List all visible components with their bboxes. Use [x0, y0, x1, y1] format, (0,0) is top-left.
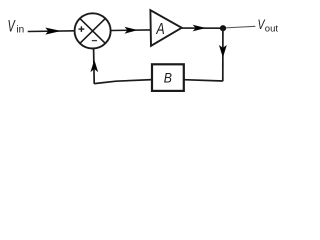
- wire Vin to summing junction: [28, 30, 75, 33]
- node Vin label: [8, 16, 25, 35]
- wire summing junction to amplifier: [112, 29, 151, 32]
- arrowhead pointing up into summing junction: [91, 61, 97, 71]
- node Vout label: [258, 16, 279, 34]
- svg-text:B: B: [164, 70, 172, 86]
- arrowhead on wire to amplifier: [125, 27, 136, 33]
- svg-text:A: A: [156, 21, 165, 39]
- arrowhead on output wire: [194, 25, 205, 31]
- svg-text:out: out: [265, 24, 279, 35]
- summing junction X diagonal 1: [80, 18, 106, 43]
- minus sign label: [92, 40, 97, 42]
- plus sign label: [79, 26, 85, 32]
- junction dot output node: [220, 25, 226, 31]
- summing junction X diagonal 2: [80, 18, 106, 43]
- arrowhead on Vin wire: [46, 28, 59, 34]
- wire output node down to feedback: [222, 28, 224, 81]
- wire feedback bottom left horizontal: [94, 80, 152, 84]
- arrowhead pointing down on feedback drop: [220, 46, 227, 57]
- wire feedback up to summing junction: [93, 49, 96, 84]
- summing junction S1 circle: [75, 13, 111, 48]
- wire amplifier to output node: [182, 27, 223, 29]
- wire output node to Vout: [223, 26, 255, 28]
- feedback block B box: [152, 64, 184, 91]
- wire feedback bottom right horizontal: [184, 80, 223, 81]
- amplifier A triangle: [150, 10, 181, 46]
- svg-text:in: in: [16, 25, 24, 36]
- svg-text:V: V: [8, 16, 17, 35]
